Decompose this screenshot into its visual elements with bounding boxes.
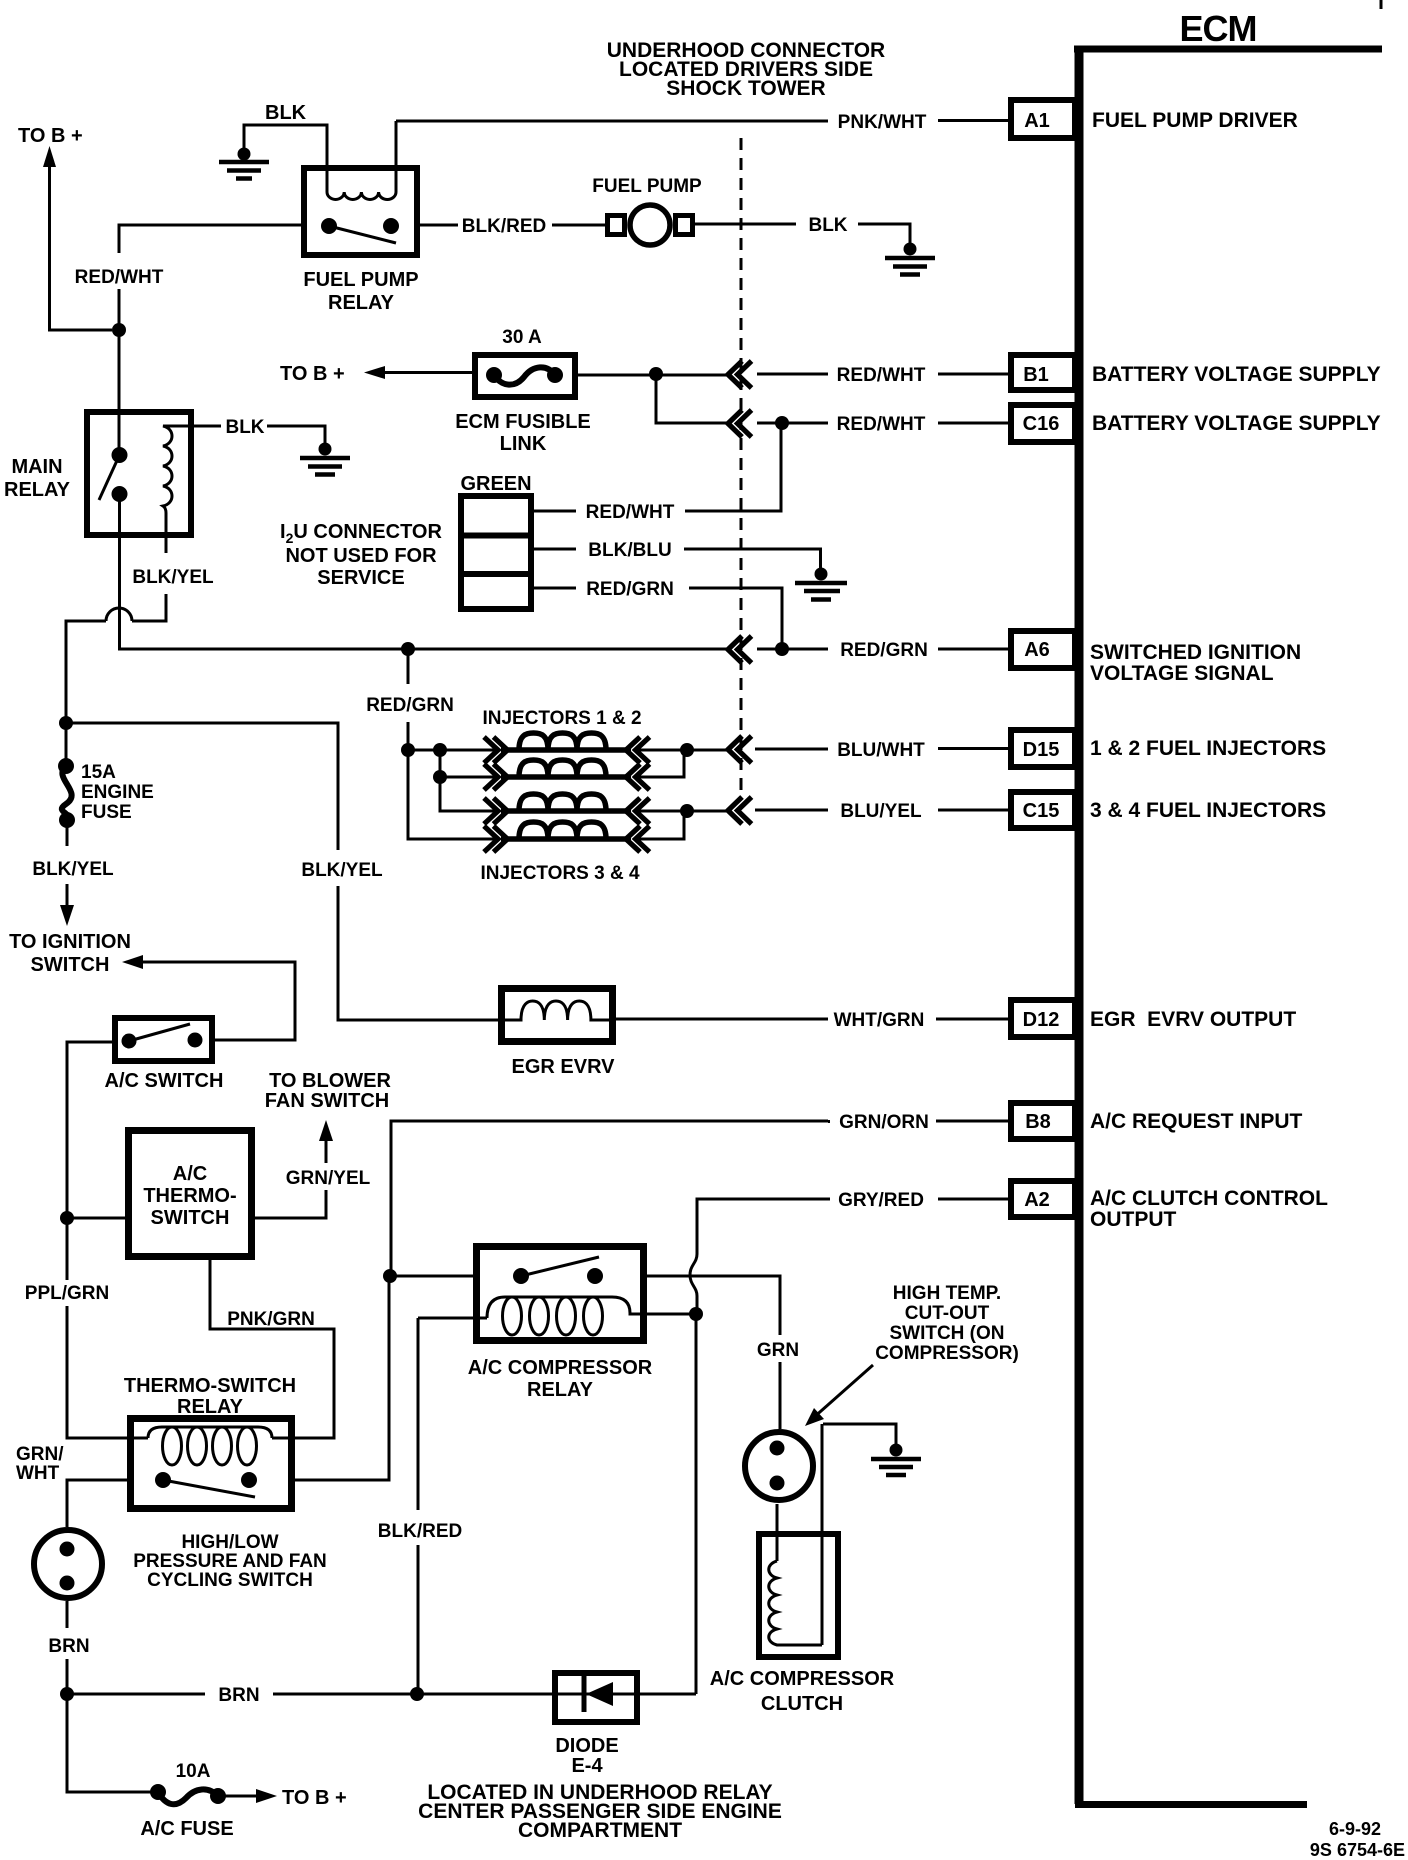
- thermo-switch relay box: [131, 1419, 292, 1509]
- wire injector feeds: [408, 750, 495, 811]
- svg-text:WHT/GRN: WHT/GRN: [834, 1010, 925, 1031]
- svg-text:GRN/: GRN/: [16, 1444, 64, 1465]
- svg-text:D12: D12: [1023, 1009, 1060, 1031]
- svg-text:CUT-OUT: CUT-OUT: [905, 1303, 990, 1324]
- arrow to cut-out switch: [805, 1365, 873, 1426]
- svg-text:WHT: WHT: [16, 1463, 60, 1484]
- label A/C COMPRESSOR RELAY: [468, 1357, 653, 1401]
- fuel pump relay coil: [327, 121, 396, 200]
- ECM pin D12 box: [1011, 1000, 1075, 1037]
- svg-text:OUTPUT: OUTPUT: [1090, 1208, 1177, 1231]
- svg-text:THERMO-: THERMO-: [143, 1185, 236, 1207]
- label SWITCHED IGNITION VOLTAGE SIGNAL: [1090, 641, 1301, 685]
- label I2U CONNECTOR NOT USED FOR SERVICE: [280, 521, 442, 589]
- wire BRN pressure switch drop: [66, 1601, 69, 1694]
- underhood connector dashed line: [740, 138, 743, 793]
- wire thermo relay to compressor relay node: [295, 1276, 389, 1480]
- wire BLK/RED relay to fuel pump: [420, 224, 605, 227]
- main relay coil: [163, 426, 191, 538]
- svg-text:BATTERY VOLTAGE SUPPLY: BATTERY VOLTAGE SUPPLY: [1092, 363, 1381, 386]
- wire BLK/RED: [418, 1318, 487, 1694]
- svg-text:TO B +: TO B +: [282, 1787, 347, 1809]
- high temp cut-out switch: [745, 1432, 813, 1500]
- svg-text:RED/WHT: RED/WHT: [586, 502, 675, 523]
- svg-text:BLK/YEL: BLK/YEL: [132, 567, 214, 588]
- svg-text:TO IGNITION: TO IGNITION: [9, 931, 131, 953]
- arrowhead to ignition switch (left): [122, 955, 143, 969]
- wire RED/WHT to B1: [578, 374, 1008, 375]
- wire to ECM fusible link: [381, 371, 472, 374]
- wire RED/GRN switch drop to A6: [120, 494, 1009, 649]
- svg-text:SWITCH: SWITCH: [151, 1207, 230, 1229]
- svg-text:BLK/RED: BLK/RED: [462, 216, 546, 237]
- wire BLK/YEL to engine fuse: [65, 723, 68, 766]
- svg-text:RELAY: RELAY: [328, 292, 395, 314]
- junction dot B1/C16: [649, 367, 663, 381]
- ECM pin B8 box: [1011, 1103, 1075, 1139]
- arrowhead to blower fan switch: [319, 1120, 333, 1141]
- junction dot injectors 3-4: [680, 804, 694, 818]
- arrow to ignition switch: [60, 884, 74, 926]
- A/C compressor relay blade: [521, 1257, 599, 1276]
- junction dot BLK/RED-BRN: [410, 1687, 424, 1701]
- wire RED/WHT vertical (relay feed): [119, 225, 301, 455]
- svg-text:FUEL PUMP: FUEL PUMP: [592, 176, 702, 197]
- svg-text:GRN/YEL: GRN/YEL: [286, 1168, 371, 1189]
- wire PNK/WHT to A1: [396, 119, 1008, 123]
- injector 1: [484, 733, 650, 763]
- label MAIN RELAY: [4, 456, 71, 501]
- label ECM FUSIBLE LINK: [455, 411, 591, 455]
- svg-text:GREEN: GREEN: [460, 473, 531, 495]
- diode element: [552, 1676, 640, 1712]
- svg-text:BRN: BRN: [48, 1636, 89, 1657]
- A/C compressor clutch box: [759, 1534, 838, 1657]
- svg-text:BLK/BLU: BLK/BLU: [588, 540, 671, 561]
- svg-text:RED/WHT: RED/WHT: [75, 267, 164, 288]
- svg-text:ECM FUSIBLE: ECM FUSIBLE: [455, 411, 591, 433]
- svg-text:TO B +: TO B +: [280, 363, 345, 385]
- ECM fusible link element: [486, 367, 563, 385]
- svg-text:FUEL PUMP DRIVER: FUEL PUMP DRIVER: [1092, 109, 1298, 132]
- ground (main relay): [300, 443, 350, 475]
- svg-text:INJECTORS 3 & 4: INJECTORS 3 & 4: [480, 863, 640, 884]
- svg-text:9S 6754-6E: 9S 6754-6E: [1310, 1840, 1405, 1860]
- svg-text:BLK: BLK: [225, 417, 264, 438]
- svg-text:RELAY: RELAY: [177, 1396, 244, 1418]
- wire cut-out switch to ground: [823, 1424, 896, 1444]
- connector chevron B1: [728, 361, 752, 388]
- svg-text:BLK/RED: BLK/RED: [378, 1521, 462, 1542]
- svg-text:BRN: BRN: [218, 1685, 259, 1706]
- label A/C COMPRESSOR CLUTCH: [710, 1668, 895, 1715]
- svg-text:A/C COMPRESSOR: A/C COMPRESSOR: [468, 1357, 653, 1379]
- ECM pin A6 box: [1011, 631, 1075, 668]
- svg-text:D15: D15: [1023, 739, 1060, 761]
- svg-text:A/C COMPRESSOR: A/C COMPRESSOR: [710, 1668, 895, 1690]
- svg-text:SERVICE: SERVICE: [317, 567, 404, 589]
- wire GRN into clutch: [776, 1504, 779, 1561]
- injector 3: [484, 794, 650, 824]
- wire BRN horizontal: [67, 1693, 696, 1696]
- EGR EVRV box: [502, 989, 613, 1042]
- svg-text:SWITCH (ON: SWITCH (ON: [889, 1323, 1004, 1344]
- wire GRN/ORN to B8: [391, 1121, 1008, 1276]
- ground (BLK/BLU): [795, 568, 847, 600]
- junction dot C16/I2U: [775, 416, 789, 430]
- svg-text:RELAY: RELAY: [527, 1379, 594, 1401]
- svg-text:B1: B1: [1023, 364, 1049, 386]
- EGR EVRV coil: [504, 1001, 610, 1020]
- wire RED/GRN injector riser: [408, 649, 495, 839]
- wire PPL/GRN to thermo relay coil: [67, 1218, 148, 1438]
- junction dot injector feed: [401, 642, 415, 656]
- svg-text:TO B +: TO B +: [18, 125, 83, 147]
- A/C thermo-switch box: [129, 1131, 252, 1257]
- svg-text:RED/GRN: RED/GRN: [586, 579, 674, 600]
- connector chevron D15: [728, 736, 752, 763]
- svg-text:COMPRESSOR): COMPRESSOR): [875, 1343, 1019, 1364]
- wire BLK fuel pump to ground: [695, 224, 910, 244]
- svg-text:BLU/WHT: BLU/WHT: [837, 740, 925, 761]
- A/C compressor clutch coil: [769, 1561, 822, 1645]
- svg-text:RED/GRN: RED/GRN: [840, 640, 928, 661]
- svg-text:GRN: GRN: [757, 1340, 799, 1361]
- wire injectors 1-2 join to D15: [634, 749, 1008, 778]
- label TO IGNITION SWITCH arrow wire: [140, 962, 295, 1040]
- svg-text:A/C: A/C: [173, 1163, 207, 1185]
- label A/C THERMO-SWITCH: [143, 1163, 236, 1229]
- wire injectors 3-4 join to C15: [634, 810, 1008, 839]
- label 15A ENGINE FUSE: [81, 762, 154, 823]
- svg-text:3 & 4 FUEL INJECTORS: 3 & 4 FUEL INJECTORS: [1090, 799, 1326, 822]
- label HIGH/LOW PRESSURE AND FAN CYCLING SWITCH: [133, 1532, 327, 1591]
- injector 4: [484, 822, 650, 852]
- ECM pin B1 box: [1011, 355, 1075, 390]
- svg-text:15A: 15A: [81, 762, 116, 783]
- svg-text:EGR EVRV: EGR EVRV: [512, 1056, 616, 1078]
- label A/C CLUTCH CONTROL OUTPUT: [1090, 1187, 1328, 1231]
- label GRN/WHT: [16, 1444, 64, 1484]
- svg-text:RED/GRN: RED/GRN: [366, 695, 454, 716]
- junction dot BLK/YEL node: [59, 716, 73, 730]
- pressure cycling switch: [34, 1530, 102, 1598]
- A/C compressor relay box: [477, 1247, 644, 1341]
- svg-text:RED/WHT: RED/WHT: [837, 414, 926, 435]
- svg-text:FUSE: FUSE: [81, 802, 132, 823]
- svg-text:HIGH TEMP.: HIGH TEMP.: [893, 1283, 1001, 1304]
- wire BLK/YEL to EGR branch: [66, 723, 498, 1020]
- arrowhead left to B+: [364, 366, 385, 379]
- svg-text:A1: A1: [1024, 110, 1050, 132]
- injector feed junction dots: [401, 743, 415, 757]
- svg-text:ECM: ECM: [1180, 8, 1257, 49]
- svg-text:PPL/GRN: PPL/GRN: [25, 1283, 109, 1304]
- label UNDERHOOD CONNECTOR: [607, 39, 885, 100]
- svg-text:GRN/ORN: GRN/ORN: [839, 1112, 929, 1133]
- svg-text:EGR EVRV OUTPUT: EGR EVRV OUTPUT: [1090, 1008, 1296, 1031]
- A/C compressor relay coil: [487, 1297, 696, 1335]
- svg-text:BLK/YEL: BLK/YEL: [301, 860, 383, 881]
- svg-text:INJECTORS 1 & 2: INJECTORS 1 & 2: [482, 708, 641, 729]
- svg-text:PNK/WHT: PNK/WHT: [838, 112, 927, 133]
- ground (top left): [219, 148, 269, 179]
- injector 2: [484, 760, 650, 790]
- fuel pump relay switch blade: [329, 226, 396, 243]
- svg-text:MAIN: MAIN: [11, 456, 62, 478]
- svg-text:A/C SWITCH: A/C SWITCH: [105, 1070, 224, 1092]
- wire BLK/BLU I2U to ground: [532, 549, 821, 568]
- wire PPL/GRN A/C switch drop: [67, 1042, 112, 1218]
- A/C switch box: [115, 1018, 212, 1061]
- svg-text:BLK: BLK: [808, 215, 847, 236]
- A/C compressor relay contacts: [513, 1268, 529, 1284]
- junction RED/WHT node: [112, 323, 126, 337]
- label HIGH TEMP. CUT-OUT SWITCH (ON COMPRESSOR): [875, 1283, 1019, 1364]
- svg-text:30 A: 30 A: [502, 327, 542, 348]
- wire thermo-switch left: [67, 1217, 125, 1220]
- connector chevron C16: [728, 410, 752, 437]
- A/C switch contacts: [122, 1034, 137, 1049]
- svg-text:ENGINE: ENGINE: [81, 782, 154, 803]
- fuel pump relay box: [304, 168, 417, 255]
- wire PNK/GRN: [210, 1260, 334, 1438]
- wire BLK (main relay ground): [191, 426, 325, 443]
- ECM pin D15 box: [1011, 730, 1075, 767]
- wire GRN compressor relay to switch: [647, 1276, 780, 1429]
- main relay box: [87, 412, 191, 535]
- label THERMO-SWITCH RELAY: [124, 1375, 296, 1418]
- A/C switch blade: [129, 1024, 190, 1041]
- svg-text:BATTERY VOLTAGE SUPPLY: BATTERY VOLTAGE SUPPLY: [1092, 412, 1381, 435]
- svg-text:C15: C15: [1023, 800, 1060, 822]
- clutch right conductor: [821, 1424, 824, 1645]
- ground (cut-out switch): [871, 1444, 921, 1476]
- label TO BLOWER FAN SWITCH: [265, 1070, 392, 1112]
- wire RED/WHT riser to B+: [50, 163, 113, 330]
- svg-text:COMPARTMENT: COMPARTMENT: [518, 1819, 682, 1842]
- svg-text:A6: A6: [1024, 639, 1050, 661]
- wire BLK/YEL below fuse: [66, 820, 69, 846]
- ECM pin C16 box: [1011, 405, 1075, 442]
- ECM module outline: [1074, 46, 1382, 1805]
- svg-text:A/C CLUTCH CONTROL: A/C CLUTCH CONTROL: [1090, 1187, 1328, 1210]
- svg-text:THERMO-SWITCH: THERMO-SWITCH: [124, 1375, 296, 1397]
- top right tick mark: [1380, 0, 1383, 9]
- svg-text:6-9-92: 6-9-92: [1329, 1819, 1381, 1839]
- ECM pin A1 box: [1011, 100, 1075, 138]
- wire GRY/RED from A2: [690, 1199, 1008, 1314]
- svg-text:A/C FUSE: A/C FUSE: [140, 1818, 233, 1840]
- ECM fusible link box: [475, 355, 575, 397]
- wire BRN to A/C fuse: [67, 1694, 158, 1792]
- svg-text:BLU/YEL: BLU/YEL: [840, 801, 922, 822]
- svg-text:RELAY: RELAY: [4, 479, 71, 501]
- junction dot PPL/GRN node: [60, 1211, 74, 1225]
- connector chevron A6: [728, 636, 752, 663]
- wire RED/GRN I2U drop: [532, 588, 782, 649]
- svg-text:E-4: E-4: [571, 1755, 603, 1777]
- wire BLK (top ground): [244, 125, 327, 192]
- svg-text:CLUTCH: CLUTCH: [761, 1693, 843, 1715]
- junction dot compressor relay node: [383, 1269, 397, 1283]
- svg-text:B8: B8: [1025, 1111, 1051, 1133]
- wire GRN/WHT: [67, 1480, 127, 1527]
- label TO IGNITION SWITCH: [9, 931, 131, 976]
- diode E-4 box: [555, 1673, 637, 1722]
- ground (fuel pump): [885, 243, 935, 275]
- svg-text:HIGH/LOW: HIGH/LOW: [181, 1532, 278, 1553]
- wire GRN/YEL to blower: [255, 1140, 326, 1218]
- svg-text:LINK: LINK: [500, 433, 547, 455]
- fuel pump motor: [608, 205, 693, 245]
- junction dot injectors 1-2: [680, 743, 694, 757]
- svg-text:DIODE: DIODE: [555, 1735, 618, 1757]
- svg-text:10A: 10A: [176, 1761, 211, 1782]
- svg-text:FUEL PUMP: FUEL PUMP: [303, 269, 418, 291]
- svg-text:SHOCK TOWER: SHOCK TOWER: [666, 77, 825, 100]
- svg-text:FAN SWITCH: FAN SWITCH: [265, 1090, 389, 1112]
- junction dot BRN node: [60, 1687, 74, 1701]
- svg-text:NOT USED FOR: NOT USED FOR: [285, 545, 437, 567]
- ECM pin A2 box: [1011, 1181, 1075, 1217]
- svg-text:A2: A2: [1024, 1189, 1050, 1211]
- svg-text:RED/WHT: RED/WHT: [837, 365, 926, 386]
- wire diode riser: [695, 1314, 698, 1694]
- wire RED/WHT to C16: [656, 374, 1008, 423]
- main relay switch blade: [99, 455, 120, 500]
- svg-text:GRY/RED: GRY/RED: [838, 1190, 924, 1211]
- label LOCATED IN UNDERHOOD RELAY CENTER: [418, 1781, 782, 1842]
- svg-text:BLK/YEL: BLK/YEL: [32, 859, 114, 880]
- junction dot GRY/RED node: [689, 1307, 703, 1321]
- connector chevron C15: [728, 797, 752, 824]
- fuse 10A A/C: [150, 1784, 226, 1804]
- thermo-switch relay contacts: [155, 1472, 171, 1488]
- svg-text:A/C REQUEST INPUT: A/C REQUEST INPUT: [1090, 1110, 1303, 1133]
- svg-text:PRESSURE AND FAN: PRESSURE AND FAN: [133, 1551, 327, 1572]
- arrowhead up to B+: [43, 146, 56, 167]
- label FUEL PUMP RELAY: [303, 269, 418, 314]
- svg-text:SWITCHED IGNITION: SWITCHED IGNITION: [1090, 641, 1301, 664]
- svg-text:TO BLOWER: TO BLOWER: [269, 1070, 391, 1092]
- wire BLK/YEL coil drop with hop: [66, 538, 166, 723]
- svg-text:SWITCH: SWITCH: [31, 954, 110, 976]
- wire WHT/GRN to D12: [616, 1018, 1008, 1021]
- svg-text:I2U CONNECTOR: I2U CONNECTOR: [280, 521, 442, 546]
- svg-text:1 & 2 FUEL INJECTORS: 1 & 2 FUEL INJECTORS: [1090, 737, 1326, 760]
- thermo-switch relay coil: [148, 1427, 334, 1465]
- thermo-switch relay blade: [163, 1480, 255, 1497]
- svg-text:BLK: BLK: [265, 102, 307, 124]
- wire compressor relay left: [390, 1275, 473, 1278]
- I2U connector box: [460, 496, 532, 609]
- svg-text:CYCLING SWITCH: CYCLING SWITCH: [147, 1570, 313, 1591]
- svg-text:C16: C16: [1023, 413, 1060, 435]
- svg-text:PNK/GRN: PNK/GRN: [227, 1309, 315, 1330]
- fuel pump relay contacts: [321, 218, 337, 234]
- label DIODE E-4: [555, 1735, 618, 1777]
- fuse 15A ENGINE: [58, 758, 75, 828]
- arrowhead A/C fuse to B+: [256, 1789, 277, 1803]
- junction dot A6 node: [775, 642, 789, 656]
- wire RED/WHT I2U riser: [532, 423, 781, 511]
- main relay contacts: [112, 447, 128, 463]
- ECM pin C15 box: [1011, 792, 1075, 828]
- svg-text:VOLTAGE SIGNAL: VOLTAGE SIGNAL: [1090, 662, 1274, 685]
- wire A/C fuse to B+: [218, 1795, 259, 1798]
